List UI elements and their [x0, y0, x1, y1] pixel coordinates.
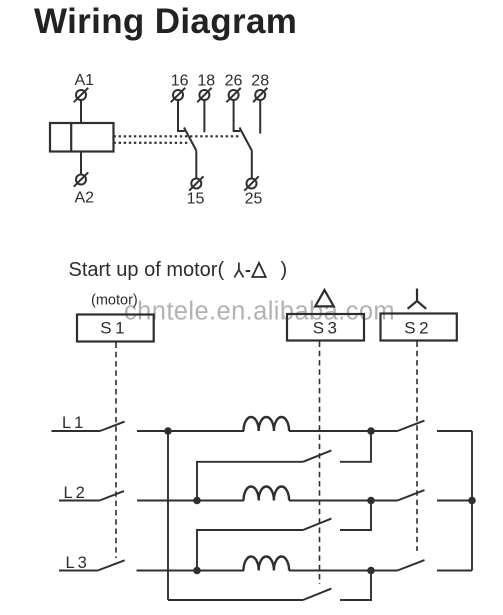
wire L2 lead	[59, 500, 100, 502]
svg-text:L2: L2	[64, 484, 88, 502]
wye symbol above S2	[408, 289, 427, 309]
svg-text:S3: S3	[313, 319, 341, 338]
svg-text:A2: A2	[75, 190, 95, 207]
linkage dotted line upper	[114, 135, 241, 137]
svg-text:25: 25	[245, 190, 263, 207]
terminal 25	[244, 176, 258, 190]
svg-text:28: 28	[251, 72, 269, 89]
S1 linkage dashed line	[115, 343, 117, 559]
svg-text:L3: L3	[66, 554, 90, 572]
contact S3 blade level3	[303, 519, 331, 530]
svg-text:S2: S2	[404, 319, 432, 338]
contact S1 blade L3	[98, 560, 125, 570]
bus wire L1 drop	[167, 431, 169, 600]
delta symbol in caption	[252, 263, 265, 277]
contact blade 26-25	[240, 128, 252, 151]
terminal 16	[171, 88, 185, 102]
wire bottom to riser	[340, 571, 371, 601]
terminal 26	[226, 88, 240, 102]
junction L3 delta left	[193, 567, 201, 575]
linkage dotted line lower	[114, 142, 189, 144]
wire W2 to S2 contact	[289, 500, 398, 502]
terminal A1	[74, 88, 88, 102]
wye symbol in caption	[234, 263, 243, 278]
junction L2 delta riser	[367, 497, 375, 505]
svg-text:): )	[281, 259, 288, 281]
contact S3 blade level2	[303, 450, 331, 461]
contact S1 blade L1	[100, 422, 125, 431]
contact S2 blade L1	[398, 421, 425, 431]
svg-text:chntele.en.alibaba.com: chntele.en.alibaba.com	[124, 298, 395, 326]
svg-text:A1: A1	[75, 72, 95, 89]
switch S1 box	[77, 315, 154, 342]
contact S1 blade L2	[100, 491, 125, 500]
svg-text:18: 18	[197, 72, 215, 89]
contact S3 blade bottom	[303, 589, 331, 600]
right bus wire	[471, 431, 473, 571]
wire blade to terminal 15	[195, 151, 197, 179]
delta link L2 riser up	[197, 462, 303, 501]
S2 linkage dashed line	[416, 342, 418, 552]
wire L2 to right bus	[437, 500, 472, 502]
motor winding W2	[244, 487, 290, 501]
wire A1 to coil	[80, 100, 82, 123]
bottom delta wire	[168, 599, 303, 601]
junction L1 bus	[164, 427, 172, 435]
switch S2 box	[381, 314, 457, 341]
wire L1 lead	[52, 430, 101, 432]
wire L3 to right bus	[437, 570, 472, 572]
S3 linkage dashed line	[319, 342, 321, 585]
terminal 28	[253, 88, 267, 102]
wire L2 to coil	[137, 500, 244, 502]
junction L3 bottom riser	[367, 567, 375, 575]
svg-text:Wiring Diagram: Wiring Diagram	[34, 2, 297, 41]
wire terminal 16 down	[178, 100, 185, 131]
delta link L3 riser up	[197, 530, 303, 571]
wire L1 to coil	[137, 430, 244, 432]
wire blade to terminal 25	[251, 151, 253, 179]
svg-text:26: 26	[225, 72, 243, 89]
delta symbol above S3	[315, 290, 334, 306]
hyphen in caption	[246, 270, 251, 272]
svg-text:L1: L1	[62, 414, 86, 432]
wire coil to A2	[80, 152, 82, 175]
wire W1 to S2 contact	[289, 430, 398, 432]
junction L1 delta riser	[367, 427, 375, 435]
motor winding W1	[244, 417, 290, 431]
svg-text:(motor): (motor)	[91, 293, 138, 309]
switch S3 box	[287, 314, 364, 341]
wire L3 to coil	[137, 570, 245, 572]
relay coil K1	[50, 123, 114, 152]
contact S2 blade L2	[398, 490, 425, 500]
svg-text:Start up of motor(: Start up of motor(	[69, 259, 225, 281]
wire level3 to riser	[340, 501, 371, 531]
wire level2 to riser	[340, 431, 371, 462]
contact S2 blade L3	[398, 560, 425, 570]
motor winding W3	[244, 557, 290, 571]
junction L2 delta left	[193, 497, 201, 505]
svg-text:16: 16	[171, 72, 189, 89]
wire W3 to S2 contact	[289, 570, 398, 572]
wire L3 lead	[59, 570, 98, 572]
svg-text:15: 15	[187, 190, 205, 207]
terminal A2	[74, 172, 88, 186]
wire terminal 18 down	[203, 100, 205, 132]
terminal 15	[189, 176, 203, 190]
junction right bus L2	[468, 497, 476, 505]
wire terminal 28 down	[259, 100, 261, 134]
svg-text:S1: S1	[100, 319, 128, 338]
wire terminal 26 down	[234, 100, 241, 131]
terminal 18	[197, 88, 211, 102]
wire L1 to right bus	[437, 430, 472, 432]
contact blade 16-15	[184, 128, 196, 151]
